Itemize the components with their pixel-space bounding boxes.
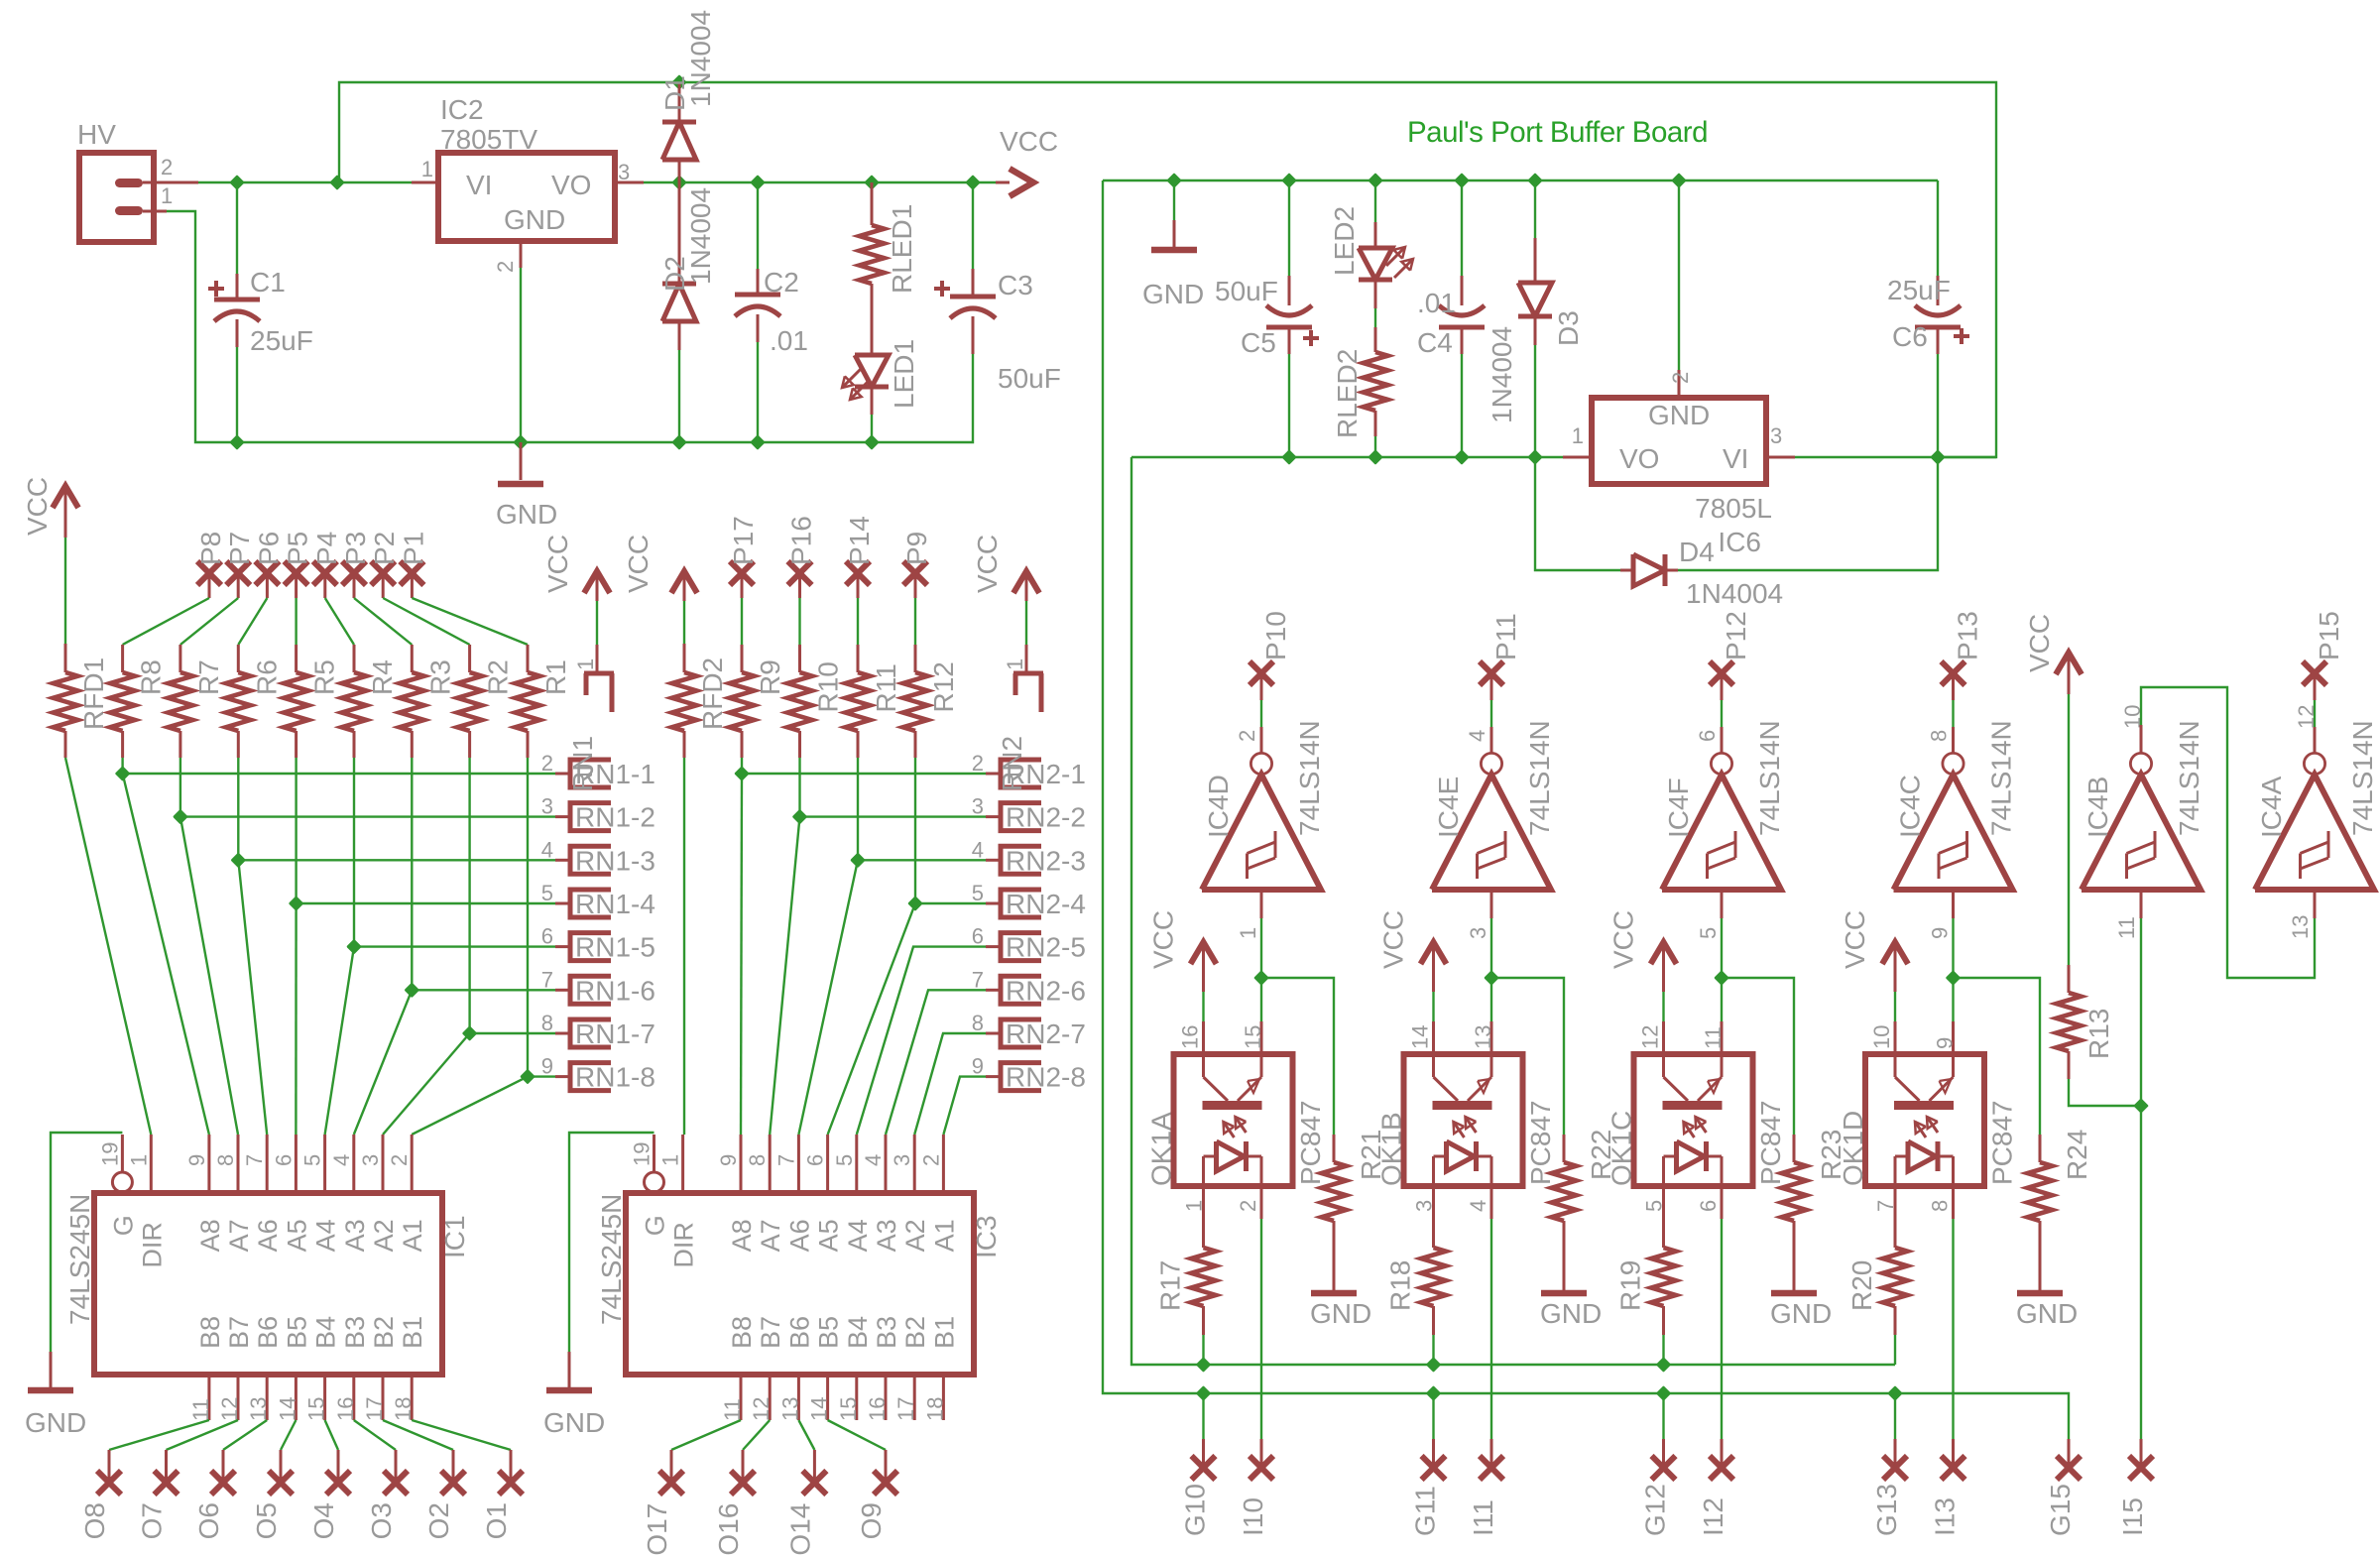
svg-text:9: 9: [184, 1154, 209, 1166]
svg-text:P9: P9: [901, 532, 932, 565]
svg-text:A4: A4: [311, 1219, 341, 1252]
pin RN2-2: [986, 815, 1001, 818]
svg-text:C3: C3: [998, 270, 1033, 300]
svg-text:LED1: LED1: [889, 339, 919, 409]
svg-text:6: 6: [271, 1154, 296, 1166]
svg-text:1: 1: [573, 658, 598, 670]
svg-text:P16: P16: [786, 516, 817, 565]
junction R19 row: [1658, 1359, 1670, 1371]
wire R7 to row: [179, 758, 181, 817]
resistor R8: [121, 645, 124, 672]
wire IC1 pin 15 to O4: [325, 1420, 338, 1450]
svg-text:8: 8: [213, 1154, 238, 1166]
wire P14 to R11: [857, 598, 859, 645]
voltage regulator IC6 7805L: [1592, 398, 1766, 484]
pin O16: [731, 1471, 755, 1495]
svg-text:G: G: [641, 1215, 670, 1236]
diode D3 1N4004: [1534, 180, 1536, 238]
svg-text:B3: B3: [872, 1316, 901, 1349]
svg-text:RN2-7: RN2-7: [1006, 1018, 1086, 1049]
resistor R23: [1793, 1135, 1796, 1162]
ground GND top right section: [1173, 180, 1175, 220]
wire RN2-8 to IC3 pin: [943, 1077, 986, 1135]
pin I12: [1710, 1456, 1733, 1480]
resistor R17: [1202, 1186, 1205, 1248]
pin G12: [1652, 1456, 1676, 1480]
svg-text:O8: O8: [79, 1502, 110, 1539]
svg-text:2: 2: [541, 751, 553, 776]
pin P3: [342, 561, 366, 585]
svg-text:P10: P10: [1260, 611, 1291, 660]
pin RN2-8: [986, 1075, 1001, 1078]
resistor RLED2: [1374, 308, 1376, 327]
svg-text:B1: B1: [398, 1316, 427, 1349]
wire IC3 pin 13 to O14: [798, 1420, 814, 1450]
junction C3 top: [967, 177, 979, 188]
svg-text:11: 11: [2114, 916, 2139, 939]
svg-text:OK1A: OK1A: [1146, 1112, 1177, 1186]
resistor R2: [468, 645, 471, 672]
wire RN2-7 to IC3 pin: [914, 1033, 986, 1135]
wire R17 to R-row: [1202, 1335, 1204, 1365]
svg-text:16: 16: [333, 1397, 358, 1421]
svg-text:74LS14N: 74LS14N: [1986, 720, 2017, 836]
svg-text:A7: A7: [756, 1219, 785, 1252]
pin O17: [659, 1471, 683, 1495]
svg-text:9: 9: [972, 1054, 984, 1079]
supply arrow VCC G12 stage: [1651, 942, 1677, 964]
svg-text:DIR: DIR: [137, 1222, 167, 1268]
capacitor C1: [236, 182, 238, 274]
ground GND under R22: [1541, 1290, 1587, 1297]
junction D2 bottom: [673, 436, 685, 448]
svg-text:P14: P14: [844, 516, 875, 565]
pin O5: [269, 1471, 293, 1495]
inverter IC4F 74LS14N: [1711, 753, 1731, 774]
svg-text:O16: O16: [713, 1503, 744, 1556]
svg-text:VI: VI: [1723, 443, 1748, 474]
svg-text:1N4004: 1N4004: [1686, 578, 1783, 609]
inverter IC4B 74LS14N: [2130, 753, 2151, 774]
resistor R11: [857, 645, 860, 672]
svg-text:A3: A3: [340, 1219, 370, 1252]
pin P11: [1480, 661, 1503, 685]
resistor R7: [178, 645, 181, 672]
junction IC4E input: [1486, 972, 1497, 984]
pin RN1-5: [555, 945, 570, 948]
wire IC3 pin 14 to O9: [828, 1420, 886, 1450]
svg-text:12: 12: [1638, 1025, 1663, 1049]
pin P9: [903, 561, 927, 585]
svg-text:11: 11: [1701, 1026, 1725, 1049]
svg-text:VO: VO: [551, 170, 591, 200]
pin I13: [1942, 1456, 1965, 1480]
wire row to RN1-7: [470, 1032, 555, 1034]
svg-text:9: 9: [541, 1054, 553, 1079]
wire row to RN1-8: [528, 1075, 555, 1077]
junction LED1 bottom: [866, 436, 878, 448]
wire IC1 pin 11 to O8: [109, 1420, 209, 1450]
svg-text:PC847: PC847: [1525, 1100, 1556, 1185]
inverter IC4D 74LS14N: [1250, 753, 1271, 774]
svg-text:6: 6: [972, 924, 984, 949]
svg-text:R24: R24: [2062, 1130, 2092, 1180]
junction IC4B input net: [2135, 1100, 2147, 1112]
svg-text:8: 8: [1927, 730, 1952, 742]
ground GND under IC2: [520, 442, 523, 480]
svg-text:VCC: VCC: [2024, 614, 2055, 672]
svg-text:RN2-8: RN2-8: [1006, 1062, 1086, 1093]
svg-text:1N4004: 1N4004: [685, 187, 716, 285]
pin P1: [400, 561, 423, 585]
wire row to G12: [1662, 1393, 1664, 1439]
wire row to RN1-5: [354, 945, 555, 947]
svg-text:O7: O7: [137, 1502, 168, 1539]
resistor R9: [741, 645, 744, 672]
supply arrow VCC RFD1: [53, 486, 78, 508]
pin RN2-5: [986, 945, 1001, 948]
resistor R13: [2068, 694, 2070, 965]
svg-text:19: 19: [97, 1142, 122, 1166]
wire IC4C input down: [1952, 890, 1955, 918]
svg-text:RN1: RN1: [567, 736, 598, 791]
svg-text:GND: GND: [496, 499, 557, 530]
svg-text:5: 5: [972, 881, 984, 905]
svg-text:1N4004: 1N4004: [685, 10, 716, 107]
pin P15: [2303, 661, 2326, 685]
junction riser: [331, 177, 343, 188]
capacitor C3 50uF: [972, 182, 974, 269]
svg-text:15: 15: [304, 1397, 329, 1421]
pin O1: [499, 1471, 523, 1495]
svg-text:.01: .01: [1417, 288, 1456, 318]
optocoupler OK1C PC847: [1634, 1054, 1753, 1186]
pin RN1-8: [555, 1075, 570, 1078]
svg-text:A5: A5: [814, 1219, 844, 1252]
svg-text:P2: P2: [369, 532, 400, 565]
LED LED1: [871, 326, 874, 355]
svg-text:7805TV: 7805TV: [440, 124, 537, 155]
svg-text:B7: B7: [756, 1316, 785, 1349]
svg-text:R2: R2: [483, 659, 514, 695]
svg-text:B7: B7: [224, 1316, 254, 1349]
svg-text:4: 4: [541, 837, 553, 862]
junction D3 bottom: [1529, 451, 1541, 463]
junction row 4 left: [291, 898, 302, 909]
svg-text:C5: C5: [1241, 327, 1276, 358]
svg-text:5: 5: [1696, 927, 1721, 939]
svg-text:12: 12: [2294, 705, 2319, 729]
svg-text:IC6: IC6: [1718, 527, 1761, 557]
supply arrow VCC RN1: [584, 571, 610, 593]
wire IC1 pin 13 to O6: [223, 1420, 267, 1450]
pin P7: [226, 561, 250, 585]
svg-text:4: 4: [329, 1154, 354, 1166]
wire row to RN2-4: [915, 902, 986, 904]
svg-text:PC847: PC847: [1987, 1100, 2018, 1185]
svg-text:14: 14: [807, 1397, 832, 1421]
resistor R24: [2039, 1135, 2042, 1162]
buffer IC IC1 74LS245N: [94, 1193, 442, 1375]
svg-text:A2: A2: [369, 1219, 399, 1252]
wire IC4B input down to I15: [2140, 890, 2143, 918]
junction C1 bottom: [231, 436, 243, 448]
wire P3 to R3: [354, 598, 412, 645]
wire IC2 GND pin down: [520, 268, 522, 477]
svg-text:A6: A6: [253, 1219, 283, 1252]
wire VCC to opto pin 14: [1432, 992, 1434, 1021]
svg-text:14: 14: [1408, 1025, 1433, 1049]
svg-text:PC847: PC847: [1755, 1100, 1786, 1185]
wire VO rail: [1131, 456, 1563, 458]
svg-text:R11: R11: [871, 663, 901, 712]
svg-text:6: 6: [541, 924, 553, 949]
svg-text:A4: A4: [843, 1219, 873, 1252]
junction RN2 row 2: [794, 811, 806, 823]
svg-text:VCC: VCC: [542, 535, 573, 593]
svg-text:A1: A1: [398, 1219, 427, 1252]
svg-text:B6: B6: [784, 1316, 814, 1349]
wire R19 to R-row: [1662, 1335, 1664, 1365]
wire row to IC3 pin: [741, 774, 742, 1135]
svg-text:VCC: VCC: [623, 535, 654, 593]
diode D2 1N4004: [678, 182, 681, 284]
junction row 8 left: [522, 1071, 534, 1083]
svg-text:1: 1: [161, 183, 173, 208]
svg-text:I10: I10: [1238, 1497, 1268, 1536]
wire row to RN1-3: [238, 859, 555, 861]
svg-text:8: 8: [1928, 1200, 1953, 1212]
svg-text:B5: B5: [282, 1316, 311, 1349]
svg-text:1N4004: 1N4004: [1487, 326, 1517, 423]
svg-text:P8: P8: [195, 532, 226, 565]
svg-text:1: 1: [421, 157, 433, 181]
svg-text:IC3: IC3: [971, 1215, 1002, 1258]
pin P16: [788, 561, 812, 585]
wire row to IC3 pin: [798, 860, 858, 1135]
svg-text:R4: R4: [367, 659, 398, 695]
ground GND under R24: [2017, 1290, 2063, 1297]
pin P12: [1710, 661, 1733, 685]
svg-text:P11: P11: [1490, 613, 1521, 660]
wire IC4F input down: [1721, 890, 1724, 918]
svg-text:R8: R8: [136, 659, 167, 695]
ground GND at IC3: [569, 1133, 654, 1352]
svg-text:G13: G13: [1871, 1484, 1902, 1536]
wire row to RN1-6: [412, 989, 555, 991]
svg-text:IC4D: IC4D: [1203, 775, 1234, 838]
svg-text:VCC: VCC: [1378, 910, 1409, 969]
wire RFD1 to IC1 DIR: [65, 758, 151, 1135]
wire R12 to row: [914, 758, 916, 903]
svg-text:17: 17: [362, 1397, 387, 1421]
wire IC3 pin 12 to O16: [743, 1420, 770, 1450]
svg-text:2: 2: [1668, 372, 1693, 384]
capacitor C6 25uF: [1937, 180, 1939, 276]
svg-text:4: 4: [972, 837, 984, 862]
pin G13: [1883, 1456, 1907, 1480]
pin O14: [802, 1471, 826, 1495]
svg-text:R18: R18: [1385, 1260, 1416, 1311]
wire isolated GND left border down to G-row: [1103, 180, 2069, 1439]
resistor R10: [798, 645, 801, 672]
wire opto pin 2 to I10: [1260, 1186, 1263, 1219]
wire row to IC1 pin: [325, 947, 354, 1135]
svg-text:P1: P1: [398, 532, 428, 565]
wire row to IC3 pin: [770, 817, 799, 1135]
svg-text:1: 1: [1572, 423, 1584, 448]
junction GND sym top rail: [1168, 175, 1180, 186]
optocoupler OK1A PC847: [1174, 1054, 1293, 1186]
pin RN1-2: [555, 815, 570, 818]
svg-text:P6: P6: [253, 532, 284, 565]
junction IC4D input: [1255, 972, 1267, 984]
wire IC1 pin 14 to O5: [281, 1420, 296, 1450]
wire row to RN1-4: [297, 902, 555, 904]
svg-text:4: 4: [1465, 730, 1489, 742]
wire row to G11: [1432, 1393, 1434, 1439]
svg-text:R13: R13: [2083, 1009, 2114, 1059]
wire R2 to row: [468, 758, 470, 1033]
junction C6 bottom: [1932, 451, 1944, 463]
junction G10 row: [1198, 1387, 1210, 1399]
wire row to IC1 pin: [295, 903, 297, 1135]
svg-text:O4: O4: [308, 1502, 339, 1539]
svg-text:GND: GND: [1142, 279, 1204, 309]
svg-text:B8: B8: [727, 1316, 757, 1349]
wire P11 to IC4E output: [1490, 673, 1493, 700]
wire R5 to row: [295, 758, 297, 903]
svg-text:A2: A2: [900, 1219, 930, 1252]
svg-text:HV: HV: [77, 119, 116, 150]
pin O7: [155, 1471, 178, 1495]
svg-text:11: 11: [188, 1398, 213, 1421]
junction IC4F input: [1716, 972, 1727, 984]
svg-text:13: 13: [1471, 1025, 1495, 1049]
pin RN1-6: [555, 989, 570, 992]
junction C4 top: [1456, 175, 1468, 186]
connector HV: [79, 153, 154, 242]
svg-text:R3: R3: [424, 659, 455, 695]
wire row to IC1 pin: [412, 1077, 528, 1135]
svg-text:Paul's Port Buffer Board: Paul's Port Buffer Board: [1407, 116, 1708, 149]
svg-text:P15: P15: [2314, 611, 2344, 660]
svg-text:4: 4: [1466, 1200, 1490, 1212]
junction IC4C input: [1948, 972, 1960, 984]
wire R10 to row: [798, 758, 800, 817]
wire R6 to row: [237, 758, 239, 860]
capacitor C2 .01: [757, 182, 759, 269]
pin P4: [313, 561, 337, 585]
wire VCC row left: [198, 181, 412, 183]
svg-text:GND: GND: [504, 204, 565, 235]
wire isolated GND top rail: [1103, 180, 1938, 181]
svg-text:RLED1: RLED1: [887, 204, 917, 294]
svg-text:5: 5: [832, 1154, 857, 1166]
svg-text:7: 7: [242, 1154, 267, 1166]
wire R13 to IC4B input: [2069, 1079, 2141, 1106]
junction G12 row: [1658, 1387, 1670, 1399]
svg-text:2: 2: [1235, 730, 1259, 742]
svg-text:R12: R12: [928, 661, 959, 712]
junction row 3 left: [232, 854, 244, 866]
wire row to IC1 pin: [123, 774, 209, 1135]
supply arrow VCC G11 stage: [1421, 942, 1447, 964]
svg-text:R1: R1: [540, 659, 571, 695]
svg-text:P5: P5: [283, 532, 313, 565]
resistor R5: [295, 645, 297, 672]
svg-text:C2: C2: [764, 267, 799, 298]
svg-text:3: 3: [358, 1154, 383, 1166]
svg-text:GND: GND: [1770, 1298, 1832, 1329]
junction C5 bottom: [1283, 451, 1295, 463]
supply arrow VCC RFD2: [671, 571, 697, 593]
inverter IC4C 74LS14N: [1943, 753, 1963, 774]
svg-text:50uF: 50uF: [998, 363, 1061, 394]
svg-text:R5: R5: [309, 659, 340, 695]
svg-text:VCC: VCC: [1148, 910, 1179, 969]
wire IC1 pin 18 to O1: [412, 1420, 511, 1450]
wire VCC to opto pin 16: [1202, 992, 1204, 1021]
svg-text:GND: GND: [1648, 400, 1710, 430]
svg-text:7805L: 7805L: [1695, 493, 1772, 524]
wire R9 to row: [741, 758, 743, 774]
svg-text:B1: B1: [929, 1316, 959, 1349]
svg-text:B3: B3: [340, 1316, 370, 1349]
wire row to IC3 pin: [828, 903, 915, 1135]
capacitor C5 50uF: [1288, 180, 1290, 276]
svg-text:3: 3: [972, 794, 984, 819]
svg-text:D4: D4: [1679, 537, 1715, 567]
resistor R21: [1333, 1135, 1336, 1162]
pin O2: [441, 1471, 465, 1495]
wire P17 to R9: [741, 598, 743, 645]
wire IC1 pin 16 to O3: [354, 1420, 396, 1450]
junction row 6 left: [406, 984, 417, 996]
wire VI rail to C6: [1795, 456, 1996, 458]
svg-text:74LS14N: 74LS14N: [2174, 720, 2204, 836]
svg-text:18: 18: [391, 1397, 416, 1421]
svg-text:RN2-2: RN2-2: [1006, 802, 1086, 833]
svg-text:17: 17: [893, 1397, 918, 1421]
svg-text:15: 15: [1241, 1025, 1265, 1049]
wire P7 to R7: [180, 598, 238, 645]
wire G-row to G15: [2068, 1438, 2070, 1440]
svg-text:RN1-2: RN1-2: [575, 802, 655, 833]
svg-text:IC4B: IC4B: [2082, 777, 2113, 838]
svg-text:O6: O6: [193, 1502, 224, 1539]
wire junction to R22: [1491, 978, 1564, 1135]
junction RLED2 bottom: [1369, 451, 1381, 463]
svg-text:C4: C4: [1417, 327, 1453, 358]
svg-text:B8: B8: [195, 1316, 225, 1349]
junction D3 top: [1529, 175, 1541, 186]
svg-text:.01: .01: [770, 325, 808, 356]
wire IC1 pin 17 to O2: [383, 1420, 453, 1450]
svg-text:I15: I15: [2117, 1497, 2148, 1536]
pin RN1-4: [555, 902, 570, 905]
svg-text:2: 2: [972, 751, 984, 776]
wire P4 to R4: [325, 598, 354, 645]
svg-text:VI: VI: [466, 170, 492, 200]
svg-text:IC1: IC1: [439, 1215, 470, 1258]
wire RN2-5 to IC3 pin: [857, 947, 986, 1135]
svg-text:P13: P13: [1953, 611, 1983, 660]
wire opto pin 8 to I13: [1952, 1186, 1955, 1219]
svg-text:RN2: RN2: [997, 736, 1027, 791]
pin RN1-7: [555, 1032, 570, 1035]
svg-text:I11: I11: [1468, 1499, 1498, 1536]
